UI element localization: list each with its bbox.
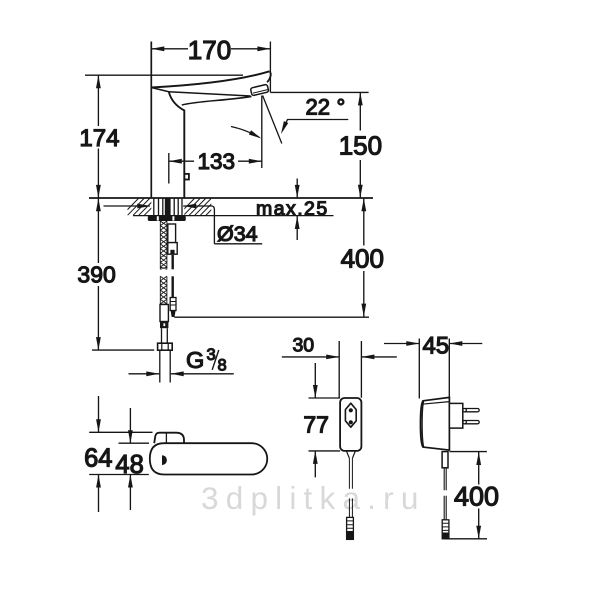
svg-text:45: 45 <box>422 333 449 360</box>
dimension 400 left <box>363 198 365 316</box>
svg-text:22: 22 <box>306 94 330 119</box>
deck top line <box>89 197 373 199</box>
aerator outlet <box>250 84 269 96</box>
control unit socket outline <box>345 403 356 427</box>
hose end sleeve <box>160 305 168 322</box>
faucet back edge and 170 left extension <box>150 42 152 199</box>
dimension 45 <box>384 343 482 345</box>
dimension 174 top extension <box>85 74 243 76</box>
adapter body <box>420 397 449 450</box>
deck hatching right of shank <box>178 198 223 215</box>
svg-text:174: 174 <box>79 125 119 152</box>
dimension 400 right extensions <box>444 452 487 539</box>
svg-text:400: 400 <box>454 482 499 512</box>
sensor window on column <box>184 174 189 180</box>
hose nipple tube <box>162 328 168 343</box>
svg-text:64: 64 <box>84 445 112 473</box>
G3/8 connection nut <box>158 343 173 350</box>
svg-text:390: 390 <box>77 262 115 288</box>
svg-text:max.25: max.25 <box>256 198 329 220</box>
mounting flange under deck <box>148 216 186 221</box>
adapter cable lower <box>444 496 446 520</box>
adapter top face seam <box>422 402 450 405</box>
dimension 64 extensions <box>89 432 152 474</box>
svg-text:3dplitka.ru: 3dplitka.ru <box>201 480 426 516</box>
dimension max.25 arrows <box>296 179 298 241</box>
sensor cable connector <box>168 243 177 255</box>
dimension 150 <box>359 92 361 197</box>
adapter pin 2 <box>463 421 479 424</box>
svg-text:170: 170 <box>188 35 231 65</box>
dimension 77 extensions <box>309 398 341 451</box>
dimension 30 extensions <box>339 341 361 398</box>
dimension 64 <box>98 396 100 512</box>
22 degree arc arrow <box>231 127 260 138</box>
dimension 150 top extension <box>270 91 368 93</box>
faucet threaded shank in deck hole <box>154 198 182 216</box>
svg-text:133: 133 <box>198 149 236 174</box>
control unit cable taper <box>346 451 355 458</box>
control unit box <box>340 398 361 451</box>
svg-text:48: 48 <box>115 451 143 479</box>
faucet spout top edge <box>151 71 269 87</box>
svg-text:150: 150 <box>339 130 382 160</box>
faucet spout bottom near edge <box>151 88 250 97</box>
adapter pin 1 <box>463 409 479 412</box>
dimension 30 <box>282 356 397 358</box>
svg-text:8: 8 <box>218 357 227 375</box>
dimension 48 <box>129 408 131 510</box>
adapter cable stub <box>442 452 448 468</box>
sensor cable plug housing <box>168 224 176 243</box>
dimension 170 extension right <box>269 42 271 93</box>
adapter cable jack <box>442 520 449 539</box>
dimension 390 <box>97 198 99 350</box>
top view sensor dot <box>162 455 167 465</box>
dimension 133 <box>169 160 262 162</box>
svg-text:G: G <box>186 347 204 373</box>
22 degree stream line <box>263 96 282 144</box>
control unit cable lower <box>349 498 352 517</box>
dimension 170 <box>151 48 270 50</box>
deck hatching left of shank <box>122 198 161 215</box>
control unit cable upper <box>349 458 352 489</box>
22 degree leader <box>282 120 348 131</box>
dimension 174 <box>97 75 99 198</box>
hose end line (400 bottom extension) <box>174 316 369 318</box>
svg-text:77: 77 <box>303 411 329 437</box>
braided supply hose upper section <box>160 221 167 269</box>
svg-text:Ø34: Ø34 <box>217 222 258 246</box>
adapter plug plate <box>449 403 462 428</box>
top view spout bump <box>154 433 184 444</box>
G3/8 threaded tube <box>160 350 170 382</box>
sensor cable jack plug <box>170 298 176 311</box>
adapter body left face seam <box>422 401 424 447</box>
top view body (stadium) <box>150 443 267 474</box>
adapter cable upper <box>444 468 446 490</box>
svg-text:30: 30 <box>292 334 314 356</box>
faucet neck chin curve and column front edge <box>169 92 185 198</box>
vertical line from aerator (133 right extension) <box>261 96 263 169</box>
sensor cable upper run <box>171 255 173 269</box>
faucet tip face <box>267 71 271 82</box>
dimension 48 extension <box>119 442 150 444</box>
diameter 34 arrows <box>104 205 150 207</box>
svg-text:°: ° <box>337 94 346 119</box>
dimension G3/8 arrows <box>129 373 234 375</box>
hose crimp collar <box>160 322 168 329</box>
dimension 45 extensions <box>419 339 449 400</box>
braided supply hose lower section <box>160 276 167 304</box>
dimension 390 bottom extension <box>92 349 154 351</box>
dimension 77 <box>314 363 316 477</box>
dimension 133 left extension <box>168 153 170 184</box>
faucet spout underside silhouette <box>182 96 252 105</box>
svg-text:400: 400 <box>341 244 384 274</box>
dimension 400 right <box>478 452 480 539</box>
sensor cable lower run <box>171 276 173 297</box>
deck bottom line <box>133 215 334 217</box>
control unit cable jack <box>347 517 354 539</box>
